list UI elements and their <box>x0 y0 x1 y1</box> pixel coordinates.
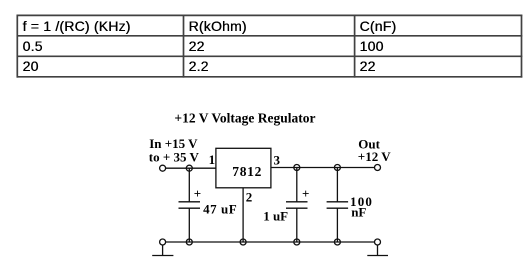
svg-text:1 uF: 1 uF <box>263 209 288 224</box>
svg-text:3: 3 <box>273 152 280 167</box>
svg-text:1: 1 <box>209 152 216 167</box>
svg-text:7812: 7812 <box>232 164 262 179</box>
svg-text:2: 2 <box>246 190 253 205</box>
svg-text:to + 35 V: to + 35 V <box>149 150 200 165</box>
svg-text:+12 V Voltage Regulator: +12 V Voltage Regulator <box>174 111 315 126</box>
svg-text:nF: nF <box>351 205 366 220</box>
svg-text:+12 V: +12 V <box>358 149 391 164</box>
svg-text:+: + <box>302 186 309 201</box>
svg-text:+: + <box>194 186 201 201</box>
svg-text:47 uF: 47 uF <box>203 201 237 216</box>
